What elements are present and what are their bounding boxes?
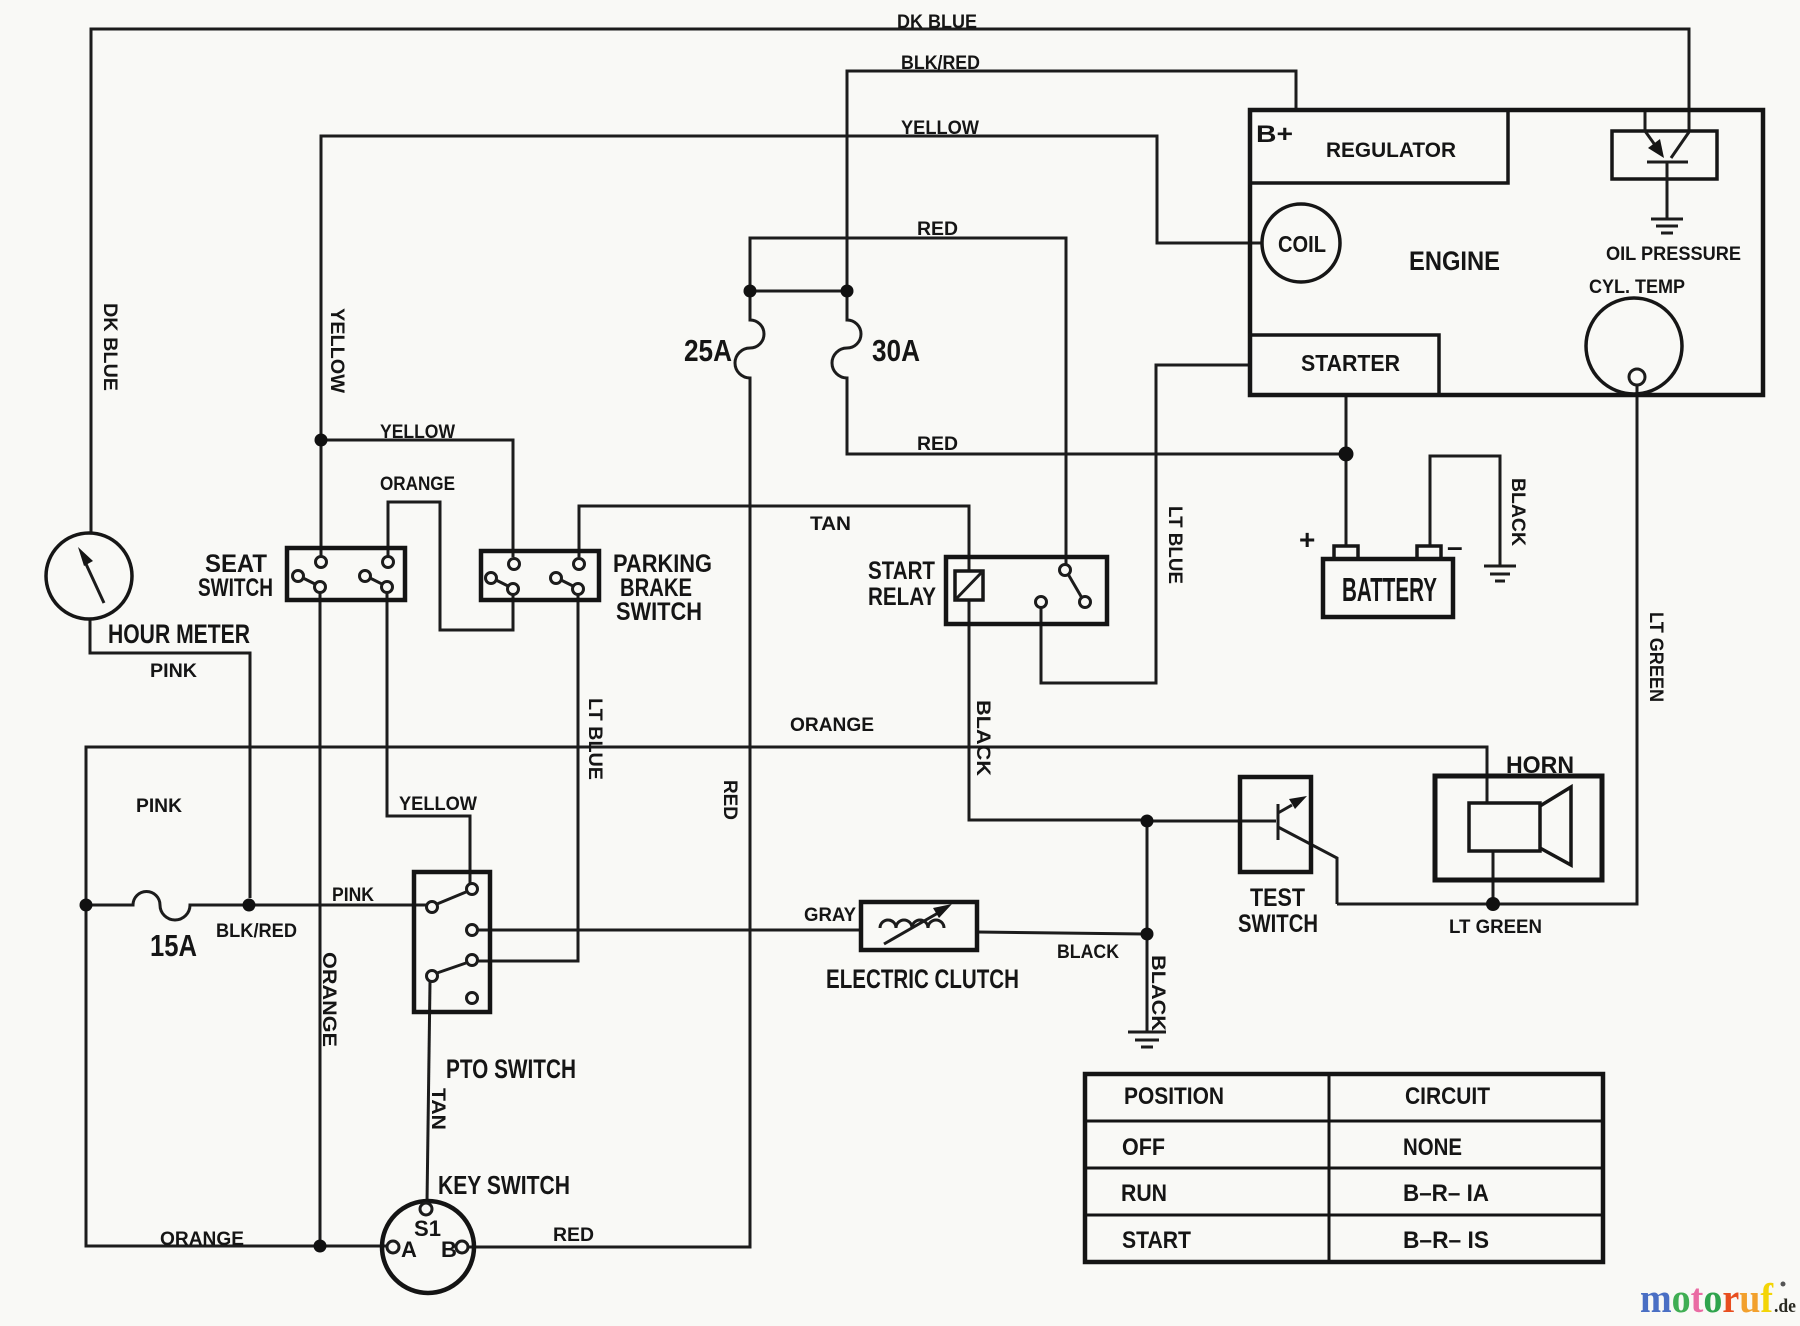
junction black clutch xyxy=(1141,928,1154,941)
wire ORANGE left down to bottom rail xyxy=(86,905,386,1246)
svg-text:RED: RED xyxy=(719,780,740,820)
svg-text:CYL. TEMP: CYL. TEMP xyxy=(1589,277,1685,298)
fuse F3 30A symbol and RED to battery junction xyxy=(832,291,1346,454)
svg-text:HOUR METER: HOUR METER xyxy=(108,619,250,649)
svg-text:START: START xyxy=(1122,1227,1191,1254)
svg-text:25A: 25A xyxy=(684,333,732,368)
junction black test switch xyxy=(1141,815,1154,828)
wire base into test switch xyxy=(1147,820,1276,823)
wire fuse top connector xyxy=(750,290,847,293)
junction lt green horn xyxy=(1486,897,1500,911)
wire YELLOW top: seat switch to engine coil xyxy=(321,136,1263,557)
motoruf.de logo xyxy=(1640,1275,1796,1321)
start relay K1 xyxy=(868,557,1107,624)
svg-text:REGULATOR: REGULATOR xyxy=(1326,139,1456,162)
svg-text:HORN: HORN xyxy=(1506,752,1574,779)
hour meter M1 xyxy=(46,533,250,649)
svg-text:BLK/RED: BLK/RED xyxy=(901,53,980,74)
wire BLACK vertical junctions to ground xyxy=(1146,821,1149,1032)
wire TAN parking brake to start relay coil xyxy=(579,506,969,571)
svg-text:PINK: PINK xyxy=(136,796,182,817)
wire LT GREEN cyl temp to horn/test switch xyxy=(1337,385,1637,904)
svg-text:TEST: TEST xyxy=(1250,884,1305,912)
wire horn bottom to LT GREEN rail xyxy=(1492,851,1495,904)
svg-text:SWITCH: SWITCH xyxy=(616,598,702,626)
svg-text:B+: B+ xyxy=(1256,121,1293,148)
svg-text:+: + xyxy=(1299,524,1315,555)
svg-text:BLK/RED: BLK/RED xyxy=(216,921,297,942)
svg-text:RED: RED xyxy=(917,434,958,455)
svg-text:BLACK: BLACK xyxy=(1057,942,1119,963)
svg-text:motoruf.de: motoruf.de xyxy=(1640,1275,1796,1321)
svg-text:TAN: TAN xyxy=(810,514,851,535)
wire test switch emitter to LT GREEN rail xyxy=(1278,827,1337,904)
svg-text:NONE: NONE xyxy=(1403,1134,1462,1161)
svg-text:YELLOW: YELLOW xyxy=(380,422,455,443)
svg-text:KEY SWITCH: KEY SWITCH xyxy=(438,1170,570,1200)
wire YELLOW seat switch to PTO switch xyxy=(387,593,470,883)
svg-text:B–R– IS: B–R– IS xyxy=(1403,1227,1489,1254)
junction battery red xyxy=(1339,447,1354,462)
svg-text:GRAY: GRAY xyxy=(804,905,856,926)
svg-text:DK BLUE: DK BLUE xyxy=(99,303,120,391)
wire hour meter bottom to BLK/RED junction xyxy=(90,619,250,898)
battery BT1 xyxy=(1299,524,1463,617)
regulator xyxy=(1250,110,1508,183)
svg-text:ENGINE: ENGINE xyxy=(1409,246,1500,276)
junction fuse 30A top xyxy=(841,285,854,298)
svg-text:RELAY: RELAY xyxy=(868,583,936,611)
svg-text:DK BLUE: DK BLUE xyxy=(897,12,977,33)
svg-text:S1: S1 xyxy=(414,1216,441,1241)
wire battery minus to ground xyxy=(1430,456,1500,566)
wire ORANGE seat switch down to bottom rail xyxy=(319,593,322,1246)
wire BLACK start relay coil to test switch xyxy=(969,600,1147,820)
svg-text:B–R– IA: B–R– IA xyxy=(1403,1180,1489,1207)
wire ORANGE main: fuse junction up and right to horn xyxy=(86,747,1487,905)
wire DK BLUE: hour meter to engine oil pressure transistor xyxy=(91,29,1689,533)
svg-text:YELLOW: YELLOW xyxy=(326,308,347,393)
svg-text:SWITCH: SWITCH xyxy=(1238,910,1318,938)
junction orange bottom xyxy=(314,1240,327,1253)
svg-text:ORANGE: ORANGE xyxy=(160,1229,244,1250)
junction yellow seat xyxy=(315,434,328,447)
svg-text:RED: RED xyxy=(917,219,958,240)
junction 15A left xyxy=(80,899,93,912)
svg-text:YELLOW: YELLOW xyxy=(399,794,477,815)
svg-text:COIL: COIL xyxy=(1278,231,1326,257)
svg-text:B: B xyxy=(441,1237,457,1262)
svg-text:LT BLUE: LT BLUE xyxy=(584,698,605,780)
svg-text:BLACK: BLACK xyxy=(1147,955,1168,1031)
svg-text:ORANGE: ORANGE xyxy=(318,952,339,1047)
svg-text:YELLOW: YELLOW xyxy=(901,118,979,139)
wire GRAY PTO to electric clutch xyxy=(478,929,861,932)
electric clutch L1 xyxy=(804,902,1019,994)
svg-text:ELECTRIC CLUTCH: ELECTRIC CLUTCH xyxy=(826,964,1019,994)
starter xyxy=(1250,335,1439,395)
horn LS1 xyxy=(1435,752,1602,880)
svg-text:15A: 15A xyxy=(150,928,197,963)
seat switch S2 xyxy=(198,548,405,602)
coil xyxy=(1262,204,1340,282)
svg-text:OIL PRESSURE: OIL PRESSURE xyxy=(1606,244,1741,265)
fuse F2 25A symbol and RED drop to key switch B xyxy=(468,291,764,1247)
svg-text:OFF: OFF xyxy=(1122,1134,1165,1161)
svg-text:PINK: PINK xyxy=(332,885,374,906)
table key switch positions xyxy=(1085,1074,1603,1262)
svg-text:BLACK: BLACK xyxy=(1507,478,1528,546)
svg-text:RED: RED xyxy=(553,1225,594,1246)
svg-text:BLACK: BLACK xyxy=(972,700,993,776)
wire ORANGE jog seat to parking brake xyxy=(388,502,513,630)
wire BLACK clutch to junction xyxy=(977,932,1147,934)
engine U1 xyxy=(1250,110,1763,395)
test switch Q2 xyxy=(1238,777,1318,938)
junction 15A right BLK/RED xyxy=(243,899,256,912)
wire LT BLUE start relay to starter xyxy=(1041,365,1251,683)
svg-text:PTO SWITCH: PTO SWITCH xyxy=(446,1054,576,1084)
svg-text:POSITION: POSITION xyxy=(1124,1083,1224,1110)
wire BLK/RED 30A fuse to regulator xyxy=(847,71,1296,291)
svg-text:LT GREEN: LT GREEN xyxy=(1645,612,1666,702)
wire LT BLUE parking brake down to PTO switch xyxy=(478,595,578,961)
svg-text:START: START xyxy=(868,557,935,585)
wire TAN PTO to key switch S1 xyxy=(427,982,430,1203)
svg-text:CIRCUIT: CIRCUIT xyxy=(1405,1083,1490,1110)
svg-text:TAN: TAN xyxy=(427,1088,448,1130)
wire 15A fuse row PINK/BLK-RED xyxy=(86,892,427,920)
junction fuse 25A top xyxy=(744,285,757,298)
oil pressure switch Q1 xyxy=(1606,112,1741,265)
svg-text:LT GREEN: LT GREEN xyxy=(1449,917,1542,938)
svg-text:PINK: PINK xyxy=(150,661,197,682)
parking brake switch S3 xyxy=(481,550,712,626)
svg-text:A: A xyxy=(401,1237,417,1262)
key switch S1 xyxy=(382,1170,570,1293)
svg-text:RUN: RUN xyxy=(1121,1180,1167,1207)
ground clutch black xyxy=(1128,1032,1166,1047)
svg-text:–: – xyxy=(1447,531,1463,562)
svg-text:SWITCH: SWITCH xyxy=(198,574,273,602)
wire battery plus to starter xyxy=(1345,396,1348,546)
svg-text:STARTER: STARTER xyxy=(1301,350,1400,376)
svg-text:ORANGE: ORANGE xyxy=(380,474,455,495)
svg-text:30A: 30A xyxy=(872,333,920,368)
ground battery xyxy=(1484,566,1516,581)
cyl temp sensor xyxy=(1586,277,1685,394)
svg-text:LT BLUE: LT BLUE xyxy=(1164,506,1185,584)
svg-text:BATTERY: BATTERY xyxy=(1342,571,1437,608)
wire RED top 25A fuse to start relay xyxy=(750,238,1066,564)
PTO switch S4 xyxy=(414,872,576,1084)
wire YELLOW branch to parking brake switch xyxy=(321,440,513,557)
svg-text:ORANGE: ORANGE xyxy=(790,715,874,736)
